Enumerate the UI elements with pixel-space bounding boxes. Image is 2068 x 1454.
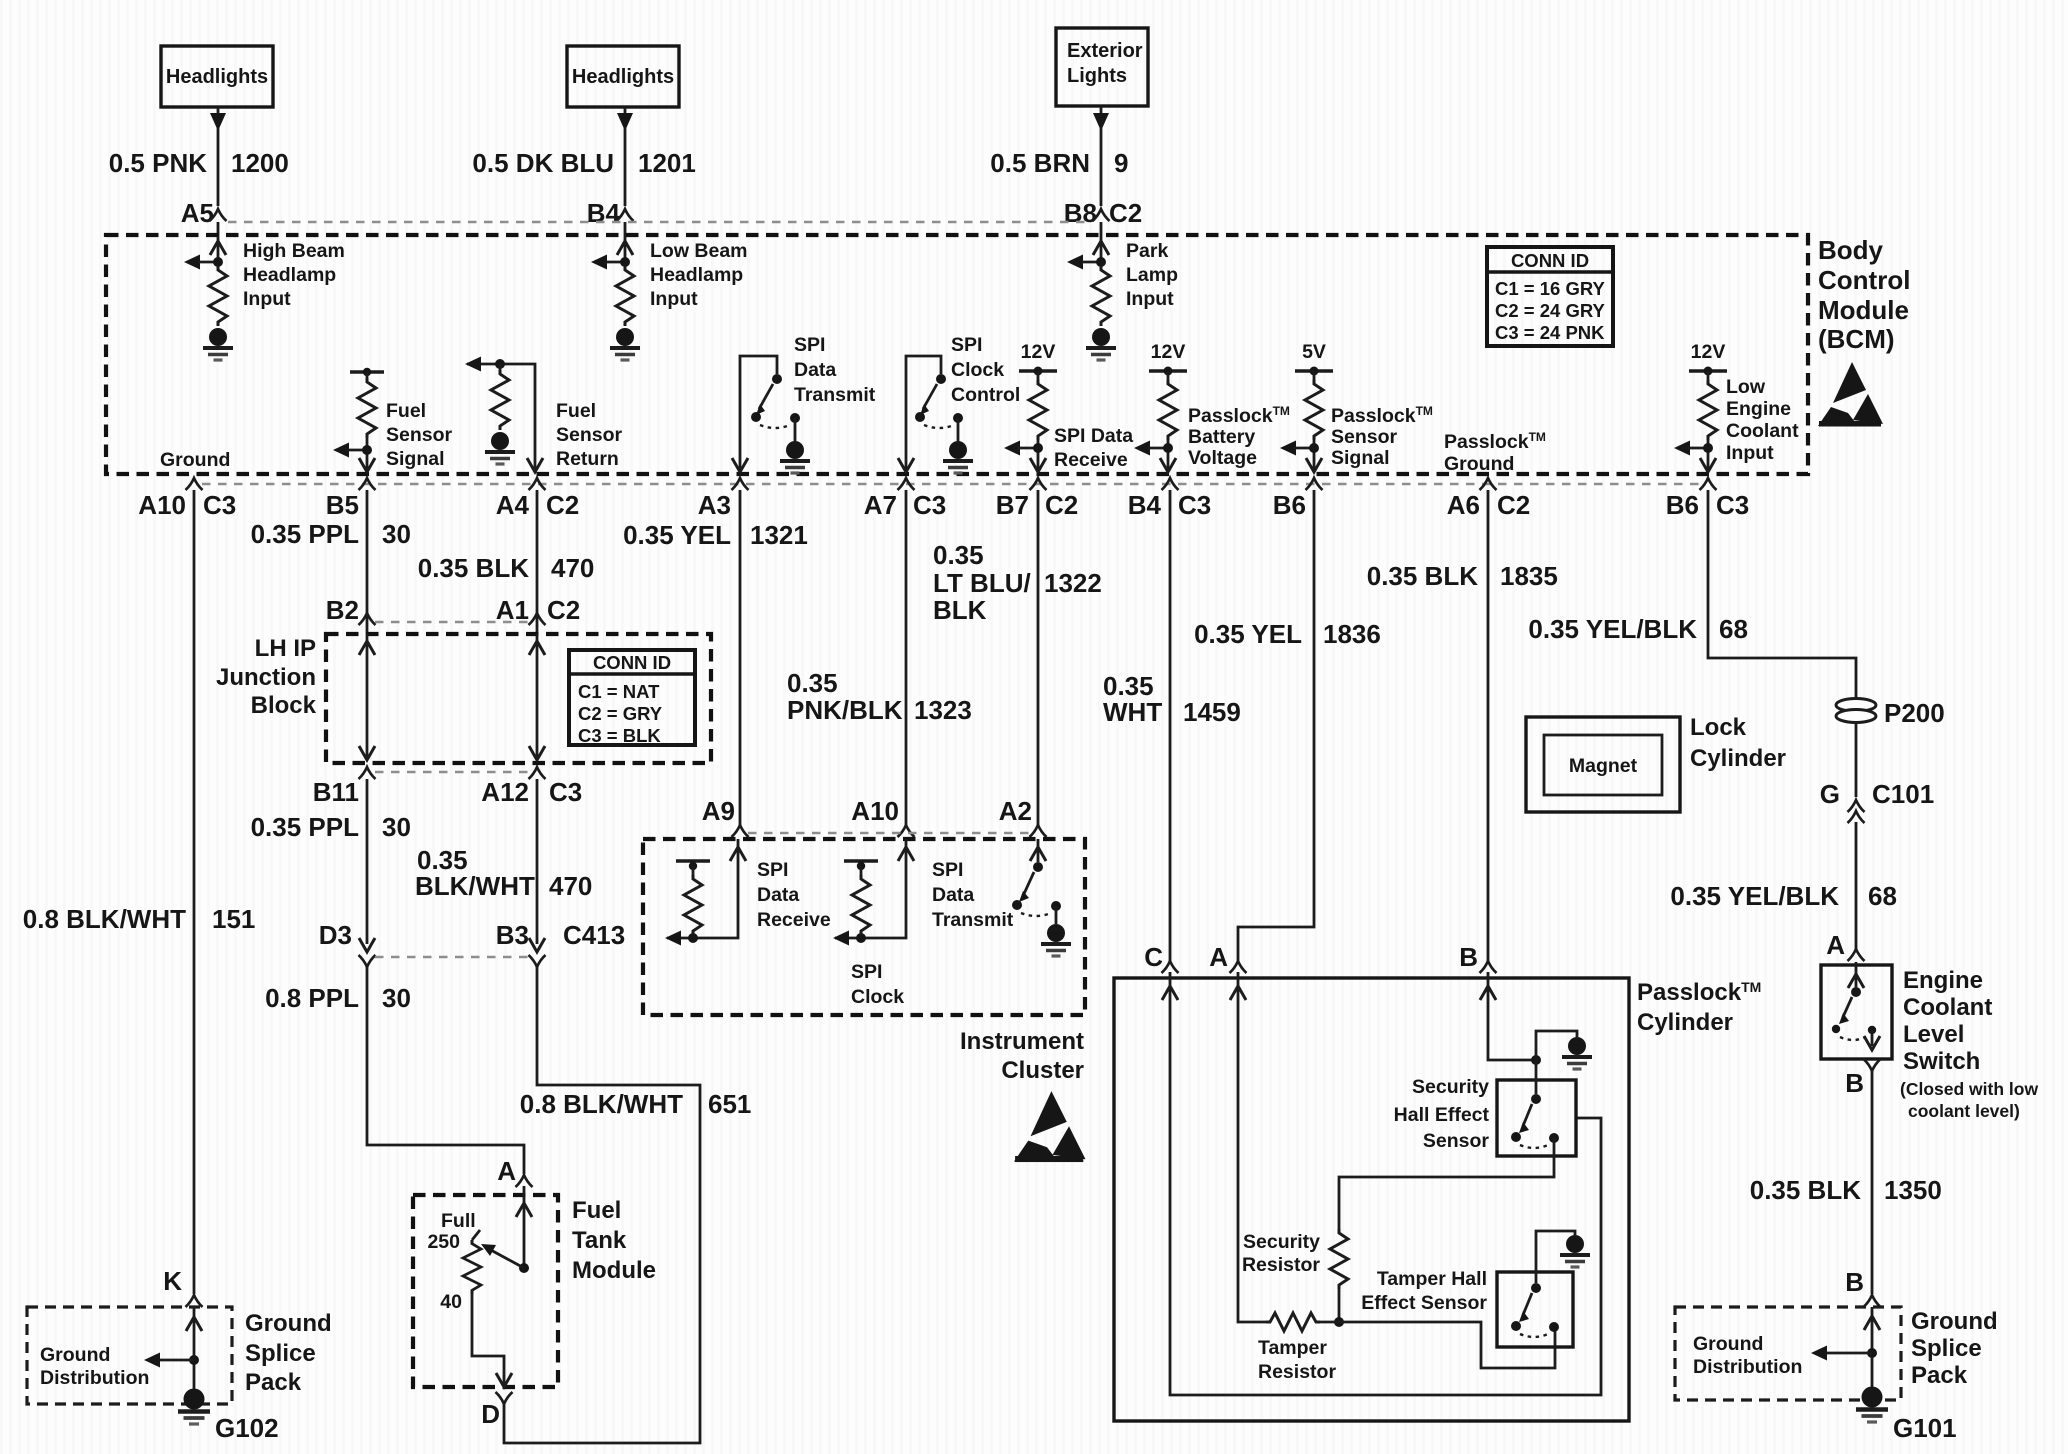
ESD symbol instrument cluster (1014, 1091, 1086, 1162)
Ground Splice Pack dashed box (G102) (27, 1307, 232, 1404)
svg-text:1350: 1350 (1884, 1175, 1942, 1205)
svg-text:9: 9 (1114, 148, 1128, 178)
svg-text:Tamper Hall: Tamper Hall (1377, 1268, 1487, 1290)
svg-text:Clock: Clock (851, 986, 904, 1008)
resistor Fuel Sensor Return (465, 357, 543, 473)
wire A4 to junction block (536, 490, 539, 634)
resistor SPI Data Receive (cluster) (665, 839, 746, 946)
svg-text:Pack: Pack (245, 1369, 302, 1396)
switch engine coolant level (1832, 962, 1880, 1050)
svg-text:Signal: Signal (1331, 447, 1390, 469)
svg-text:0.35 YEL: 0.35 YEL (623, 520, 731, 550)
svg-text:Pack: Pack (1911, 1362, 1968, 1389)
svg-text:LT BLU/: LT BLU/ (933, 568, 1031, 598)
label 0.35 BLK 1835 (1367, 561, 1558, 591)
wire B5 to junction block (366, 490, 369, 634)
svg-text:470: 470 (551, 553, 594, 583)
connector dashed line A9-A2 (748, 832, 1030, 834)
wire 0.5 DK BLU 1201 to BCM B4 (617, 107, 633, 236)
node A2 (999, 796, 1047, 837)
label Low Engine Coolant Input (1726, 376, 1799, 464)
svg-text:Headlamp: Headlamp (243, 264, 336, 286)
label Instrument Cluster (960, 1028, 1084, 1084)
wire 0.5 BRN 9 to BCM B8 (1093, 106, 1109, 236)
svg-text:Engine: Engine (1903, 967, 1983, 994)
wire A6 to passlock B (1487, 490, 1490, 962)
resistor Low Beam Headlamp Input (591, 236, 634, 326)
switch security hall sensor (1511, 1060, 1559, 1148)
svg-text:Tank: Tank (572, 1227, 627, 1254)
svg-text:Junction: Junction (216, 664, 316, 691)
svg-text:B4: B4 (1128, 490, 1162, 520)
svg-text:Security: Security (1412, 1076, 1489, 1098)
svg-text:470: 470 (549, 871, 592, 901)
box Lock Cylinder (1526, 717, 1680, 812)
svg-text:Distribution: Distribution (1693, 1356, 1802, 1378)
wire to security ground (1536, 1031, 1577, 1060)
ground (high beam) (203, 328, 233, 360)
svg-text:A: A (497, 1156, 516, 1186)
svg-text:0.35 BLK: 0.35 BLK (418, 553, 529, 583)
label SPI Clock Control (951, 334, 1020, 406)
Tamper Hall Effect Sensor box (1497, 1272, 1573, 1347)
label 0.5 PNK 1200 (109, 148, 289, 178)
grommet P200 (1836, 698, 1945, 728)
svg-text:P200: P200 (1884, 698, 1945, 728)
wire ground A10 to K (193, 490, 196, 1294)
svg-text:68: 68 (1719, 614, 1748, 644)
svg-text:Data: Data (757, 884, 799, 906)
label Ground Distribution (G102) (40, 1344, 149, 1389)
svg-text:0.35: 0.35 (933, 540, 984, 570)
svg-text:Module: Module (1818, 295, 1909, 325)
label 0.8 BLK/WHT 151 (23, 904, 256, 934)
svg-text:0.35: 0.35 (787, 668, 838, 698)
label 0.8 PPL 30 (265, 983, 411, 1013)
ground (low beam) (610, 328, 640, 360)
svg-text:C: C (1144, 942, 1163, 972)
svg-text:Control: Control (951, 384, 1020, 406)
Instrument Cluster dashed box (643, 839, 1085, 1015)
svg-text:Ground: Ground (1693, 1333, 1763, 1355)
label 0.35 PNK/BLK 1323 (787, 668, 972, 725)
svg-text:Block: Block (251, 692, 317, 719)
svg-text:1835: 1835 (1500, 561, 1558, 591)
svg-text:1459: 1459 (1183, 697, 1241, 727)
svg-text:Switch: Switch (1903, 1048, 1980, 1075)
svg-text:Transmit: Transmit (794, 384, 876, 406)
wire 0.8 BLK/WHT 651 (B3 to fuel tank D) (504, 967, 700, 1443)
svg-text:coolant level): coolant level) (1908, 1101, 2020, 1121)
BCM dashed border (106, 235, 1808, 474)
12V supply (Passlock battery voltage) (1134, 341, 1187, 472)
12V supply (SPI data receive) (1004, 341, 1057, 472)
wire A12 to B3 (536, 779, 539, 944)
svg-text:D: D (481, 1399, 500, 1429)
wire B6 C3 to P200 (1708, 490, 1856, 697)
resistor High Beam Headlamp Input (184, 236, 227, 326)
splice wire to G101 (1811, 1307, 1880, 1393)
svg-text:C3: C3 (203, 490, 236, 520)
svg-text:Input: Input (650, 288, 698, 310)
svg-text:PasslockTM: PasslockTM (1637, 979, 1761, 1006)
svg-text:Ground: Ground (40, 1344, 110, 1366)
ground (park lamp) (1086, 328, 1116, 360)
ground (tamper sensor) (1560, 1235, 1590, 1267)
label Fuel Sensor Return (556, 400, 623, 470)
wire B7 to instrument cluster A2 (1037, 490, 1040, 826)
svg-text:B11: B11 (313, 777, 359, 807)
svg-text:1200: 1200 (231, 148, 289, 178)
wire 0.8 PPL 30 to fuel tank module A (367, 967, 524, 1174)
label 0.5 DK BLU 1201 (472, 148, 695, 178)
ground G101 (1856, 1387, 1957, 1444)
svg-text:A5: A5 (181, 198, 214, 228)
svg-text:68: 68 (1868, 881, 1897, 911)
switch SPI Data Transmit (cluster) (1012, 839, 1061, 924)
svg-text:C1 = 16 GRY: C1 = 16 GRY (1495, 278, 1606, 299)
label 0.35 PPL 30 (lower) (251, 812, 411, 842)
resistor Security Resistor (1330, 1229, 1348, 1289)
label Ground Splice Pack (G102) (245, 1310, 332, 1396)
svg-text:Body: Body (1818, 235, 1884, 265)
label Security Resistor (1242, 1231, 1320, 1276)
wire B11 to D3 (366, 779, 369, 944)
wire 0.5 PNK 1200 to BCM A5 (210, 107, 226, 236)
svg-text:CONN ID: CONN ID (593, 652, 671, 673)
ground (cluster SPI data transmit) (1041, 924, 1071, 956)
svg-text:Cylinder: Cylinder (1637, 1009, 1733, 1036)
wire through junction block (A1-A12) (529, 634, 545, 760)
svg-text:Splice: Splice (245, 1340, 316, 1367)
label High Beam Headlamp Input (243, 240, 345, 310)
svg-text:Headlights: Headlights (572, 66, 674, 88)
label Tamper Hall Effect Sensor (1361, 1268, 1487, 1314)
node A3 (698, 478, 749, 520)
node B11 (313, 767, 376, 807)
wire 0.35 BLK 1350 (1871, 1071, 1874, 1294)
svg-text:C2: C2 (1109, 198, 1142, 228)
svg-text:Coolant: Coolant (1903, 994, 1992, 1021)
svg-text:B: B (1845, 1267, 1864, 1297)
svg-text:C3: C3 (913, 490, 946, 520)
label 0.35 WHT 1459 (1103, 671, 1241, 727)
label Tamper Resistor (1258, 1337, 1336, 1383)
svg-text:Ground: Ground (245, 1310, 332, 1337)
Security Hall Effect Sensor box (1497, 1080, 1576, 1156)
ESD symbol BCM (1818, 362, 1883, 427)
svg-text:G102: G102 (215, 1413, 279, 1443)
svg-text:A: A (1826, 930, 1845, 960)
label Ground Distribution (G101) (1693, 1333, 1802, 1378)
label LH IP Junction Block (216, 635, 317, 719)
svg-text:K: K (163, 1266, 182, 1296)
svg-text:PasslockTM: PasslockTM (1444, 430, 1546, 453)
label Passlock Ground (1444, 430, 1546, 475)
wire resistor junction (1334, 1289, 1344, 1327)
svg-text:Battery: Battery (1188, 426, 1255, 448)
splice wire to G102 (144, 1307, 202, 1395)
wire through junction block (B2-B11) (359, 634, 375, 760)
svg-text:Input: Input (1126, 288, 1174, 310)
svg-text:SPI: SPI (851, 961, 882, 983)
ground (security sensor) (1562, 1037, 1592, 1069)
svg-text:0.35 YEL/BLK: 0.35 YEL/BLK (1528, 614, 1697, 644)
svg-text:A7: A7 (864, 490, 897, 520)
node B6 (1273, 478, 1323, 520)
node A (passlock) (1209, 942, 1246, 973)
svg-text:B6: B6 (1273, 490, 1306, 520)
svg-text:B5: B5 (326, 490, 359, 520)
label Fuel Sensor Signal (386, 400, 453, 470)
wire A (tamper feed) (1230, 972, 1266, 1322)
svg-text:BLK: BLK (933, 595, 987, 625)
wire B4 to passlock C (1169, 490, 1172, 962)
svg-text:C3: C3 (549, 777, 582, 807)
svg-text:Sensor: Sensor (1331, 426, 1398, 448)
svg-text:SPI: SPI (951, 334, 982, 356)
svg-text:C101: C101 (1872, 779, 1934, 809)
svg-text:A2: A2 (999, 796, 1032, 826)
svg-text:High Beam: High Beam (243, 240, 345, 262)
switch SPI Data Transmit (BCM) (732, 356, 800, 472)
svg-text:Fuel: Fuel (386, 400, 426, 422)
svg-text:1323: 1323 (914, 695, 972, 725)
label Low Beam Headlamp Input (650, 240, 748, 310)
svg-text:Splice: Splice (1911, 1335, 1982, 1362)
svg-text:Security: Security (1243, 1231, 1320, 1253)
svg-text:12V: 12V (1151, 341, 1186, 363)
svg-text:Receive: Receive (757, 909, 831, 931)
wire P200 to C101 (1855, 722, 1858, 797)
svg-text:Lights: Lights (1067, 65, 1127, 87)
svg-text:Cylinder: Cylinder (1690, 745, 1786, 772)
switch SPI Clock Control (BCM) (898, 356, 963, 472)
svg-text:C2 = 24 GRY: C2 = 24 GRY (1495, 300, 1606, 321)
svg-text:151: 151 (212, 904, 255, 934)
label 0.35 LT BLU/BLK 1322 (933, 540, 1102, 625)
connector dashed line B2-A1 (375, 621, 529, 623)
svg-text:B3: B3 (496, 920, 529, 950)
svg-text:Sensor: Sensor (556, 424, 623, 446)
svg-text:PNK/BLK: PNK/BLK (787, 695, 903, 725)
label Passlock Battery Voltage (1188, 404, 1290, 469)
label 0.35 BLK 1350 (1750, 1175, 1942, 1205)
box Headlights (left) (161, 46, 273, 107)
node A6 C2 (1447, 478, 1531, 520)
label 0.35 YEL/BLK 68 (upper) (1528, 614, 1748, 644)
svg-text:BLK/WHT: BLK/WHT (415, 871, 535, 901)
svg-text:C3: C3 (1178, 490, 1211, 520)
pin B8 C2 (1064, 198, 1143, 228)
fuel gauge sender potentiometer (463, 1186, 532, 1387)
label Ground Splice Pack (G101) (1911, 1308, 1998, 1389)
label 0.35 PPL 30 (upper) (251, 519, 411, 549)
svg-text:A1: A1 (496, 595, 529, 625)
svg-text:WHT: WHT (1103, 697, 1162, 727)
inline connector G C101 (1820, 779, 1934, 823)
Engine Coolant Level Switch box (1821, 965, 1892, 1059)
svg-text:C2 = GRY: C2 = GRY (578, 703, 663, 724)
wire B (passlock ground) (1480, 972, 1541, 1065)
svg-text:PasslockTM: PasslockTM (1331, 404, 1433, 427)
node A (coolant switch) (1826, 930, 1864, 961)
label 0.8 BLK/WHT 651 (520, 1089, 752, 1119)
CONN ID table (junction block) (569, 650, 695, 746)
svg-text:SPI Data: SPI Data (1054, 425, 1133, 447)
label 0.35 BLK/WHT 470 (415, 845, 592, 901)
svg-text:Hall Effect: Hall Effect (1394, 1104, 1490, 1126)
svg-text:40: 40 (440, 1291, 462, 1313)
label Engine Coolant Level Switch (1900, 967, 2038, 1121)
svg-text:A10: A10 (851, 796, 899, 826)
svg-text:1201: 1201 (638, 148, 696, 178)
node A7 C3 (864, 478, 947, 520)
svg-text:Cluster: Cluster (1001, 1057, 1084, 1084)
svg-text:Exterior: Exterior (1067, 40, 1143, 62)
svg-text:Transmit: Transmit (932, 909, 1014, 931)
resistor SPI Clock (cluster) (833, 839, 914, 946)
CONN ID table (BCM) (1487, 247, 1613, 346)
svg-text:Coolant: Coolant (1726, 420, 1799, 442)
svg-text:Low: Low (1726, 376, 1766, 398)
inline connector B3 C413 (496, 920, 625, 967)
connector dashed line C413 (375, 956, 529, 958)
wire A7 to instrument cluster A10 (905, 490, 908, 826)
Ground Splice Pack dashed box (G101) (1675, 1307, 1901, 1400)
node A (fuel tank module) (497, 1156, 532, 1187)
node A10 C3 (138, 478, 236, 520)
svg-text:(Closed with low: (Closed with low (1900, 1079, 2038, 1099)
box Exterior Lights (1056, 28, 1148, 106)
svg-text:0.35 BLK: 0.35 BLK (1367, 561, 1478, 591)
svg-text:Ground: Ground (1444, 453, 1514, 475)
svg-text:B2: B2 (326, 595, 359, 625)
node B5 (326, 478, 376, 520)
svg-text:A12: A12 (481, 777, 529, 807)
svg-text:Ground: Ground (1911, 1308, 1998, 1335)
svg-text:Instrument: Instrument (960, 1028, 1084, 1055)
pin B4 (587, 198, 634, 228)
svg-text:Low Beam: Low Beam (650, 240, 748, 262)
svg-text:Voltage: Voltage (1188, 447, 1257, 469)
svg-text:SPI: SPI (932, 859, 963, 881)
svg-text:Park: Park (1126, 240, 1168, 262)
wire C101 to coolant switch A (1855, 822, 1858, 950)
12V supply (Low Engine Coolant Input) (1674, 341, 1727, 472)
svg-text:651: 651 (708, 1089, 751, 1119)
svg-text:C413: C413 (563, 920, 625, 950)
svg-text:LH IP: LH IP (255, 635, 316, 662)
label Security Hall Effect Sensor (1394, 1076, 1490, 1152)
svg-text:1836: 1836 (1323, 619, 1381, 649)
svg-text:C3: C3 (1716, 490, 1749, 520)
connector dashed line B11-A12 (375, 771, 529, 773)
svg-text:Control: Control (1818, 265, 1910, 295)
switch tamper hall sensor (1511, 1231, 1575, 1337)
svg-text:1321: 1321 (750, 520, 808, 550)
svg-text:1322: 1322 (1044, 568, 1102, 598)
svg-text:30: 30 (382, 812, 411, 842)
label SPI Data Receive (1054, 425, 1133, 471)
svg-text:Headlamp: Headlamp (650, 264, 743, 286)
node B (passlock) (1459, 942, 1496, 973)
Passlock Cylinder box (1114, 978, 1629, 1421)
svg-text:250: 250 (427, 1231, 460, 1253)
svg-text:Input: Input (1726, 442, 1774, 464)
5V supply (Passlock sensor signal) (1280, 341, 1333, 472)
svg-text:0.35 YEL: 0.35 YEL (1194, 619, 1302, 649)
node B2 (326, 595, 376, 625)
svg-text:Clock: Clock (951, 359, 1004, 381)
svg-text:12V: 12V (1691, 341, 1726, 363)
svg-text:0.5 DK BLU: 0.5 DK BLU (472, 148, 614, 178)
svg-text:C3 = BLK: C3 = BLK (578, 725, 661, 746)
svg-text:(BCM): (BCM) (1818, 324, 1895, 354)
svg-text:Return: Return (556, 448, 619, 470)
node B6 C3 (1666, 478, 1750, 520)
svg-text:Data: Data (794, 359, 836, 381)
ground (fuel sensor return) (485, 432, 515, 464)
svg-text:0.5 BRN: 0.5 BRN (990, 148, 1090, 178)
svg-text:C2: C2 (1045, 490, 1078, 520)
svg-text:0.5 PNK: 0.5 PNK (109, 148, 207, 178)
node B (coolant switch) (1845, 1059, 1880, 1098)
svg-text:Sensor: Sensor (1423, 1130, 1490, 1152)
Fuel Tank Module dashed box (413, 1195, 558, 1387)
svg-text:30: 30 (382, 519, 411, 549)
svg-text:Input: Input (243, 288, 291, 310)
svg-text:Data: Data (932, 884, 974, 906)
svg-text:0.35 YEL/BLK: 0.35 YEL/BLK (1670, 881, 1839, 911)
svg-text:B: B (1459, 942, 1478, 972)
svg-text:SPI: SPI (794, 334, 825, 356)
wire junction to tamper contact (1339, 1322, 1555, 1368)
ground (SPI clock control) (943, 441, 973, 473)
svg-text:A: A (1209, 942, 1228, 972)
label Park Lamp Input (1126, 240, 1178, 310)
label 0.35 YEL 1321 (623, 520, 808, 550)
svg-text:0.8 BLK/WHT: 0.8 BLK/WHT (23, 904, 186, 934)
svg-text:C2: C2 (546, 490, 579, 520)
svg-text:Resistor: Resistor (1242, 1254, 1320, 1276)
svg-text:30: 30 (382, 983, 411, 1013)
label Passlock Sensor Signal (1331, 404, 1433, 469)
label SPI Clock (851, 961, 904, 1008)
svg-text:Effect Sensor: Effect Sensor (1361, 1292, 1487, 1314)
svg-text:C2: C2 (547, 595, 580, 625)
label SPI Data Transmit (794, 334, 876, 406)
svg-text:12V: 12V (1021, 341, 1056, 363)
svg-text:Tamper: Tamper (1258, 1337, 1327, 1359)
node A1 C2 (496, 595, 581, 625)
svg-text:Resistor: Resistor (1258, 1361, 1336, 1383)
svg-text:C2: C2 (1497, 490, 1530, 520)
svg-text:Level: Level (1903, 1021, 1964, 1048)
resistor Park Lamp Input (1067, 236, 1110, 326)
svg-text:G: G (1820, 779, 1840, 809)
svg-text:Lamp: Lamp (1126, 264, 1178, 286)
ground G102 (178, 1389, 279, 1444)
svg-text:CONN ID: CONN ID (1511, 250, 1589, 271)
node D (fuel tank module) (481, 1392, 512, 1429)
inline connector D3 (319, 920, 376, 967)
svg-text:0.8 BLK/WHT: 0.8 BLK/WHT (520, 1089, 683, 1119)
svg-text:SPI: SPI (757, 859, 788, 881)
node K (163, 1266, 202, 1307)
label SPI Data Receive (cluster) (757, 859, 831, 931)
svg-text:Receive: Receive (1054, 449, 1128, 471)
